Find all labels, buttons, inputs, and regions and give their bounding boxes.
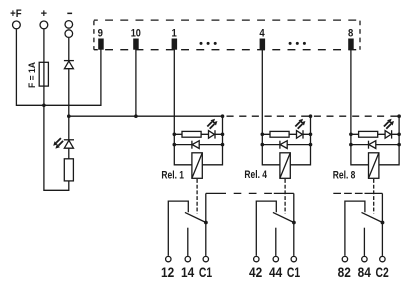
ellipsis dots left <box>200 42 203 45</box>
svg-text:4: 4 <box>259 27 265 39</box>
wire C1 bus dashed (blk1 to blk4) <box>206 192 294 194</box>
svg-text:C1: C1 <box>199 265 212 280</box>
svg-text:12: 12 <box>161 265 175 280</box>
wire − rail to LED <box>68 116 70 140</box>
node left LED branch <box>173 133 177 137</box>
node fuse/+F rail junction <box>42 104 46 108</box>
svg-text:44: 44 <box>269 265 283 280</box>
wire C bus dashed (blk4 to blk8) <box>333 192 382 194</box>
terminal + <box>40 21 48 29</box>
terminal box (dashed) <box>94 19 360 21</box>
node terminal 10 junction <box>134 114 138 118</box>
LED1 arrows <box>53 138 61 146</box>
svg-text:Rel. 1: Rel. 1 <box>161 170 184 182</box>
wire terminal 10 down <box>135 49 137 116</box>
node arm pivot <box>204 221 208 225</box>
svg-text:+: + <box>41 8 47 20</box>
wire +F down, rail to terminal 9 <box>16 29 101 105</box>
svg-text:10: 10 <box>131 27 141 39</box>
node − rail start <box>67 114 71 118</box>
node left diode branch <box>173 143 177 147</box>
node right diode branch <box>221 143 225 147</box>
resistor R (series LED) <box>182 131 201 137</box>
wire − rail dashed (blk1 to blk4) <box>227 115 311 117</box>
wire − down <box>68 38 70 61</box>
svg-text:14: 14 <box>181 265 195 280</box>
terminal 1 pin <box>172 39 178 50</box>
node right LED branch <box>221 133 225 137</box>
svg-text:8: 8 <box>348 27 353 39</box>
resistor R1 <box>64 159 73 181</box>
svg-text:C2: C2 <box>376 265 389 280</box>
wire LED to resistor <box>68 148 70 159</box>
fuse F1 <box>39 62 48 86</box>
LED (points right) <box>209 131 215 139</box>
terminal 14 <box>185 256 190 261</box>
diode (points left) <box>191 141 193 149</box>
wire LED branch <box>174 133 222 135</box>
wire + through fuse <box>43 29 45 105</box>
LED arrows <box>207 119 215 127</box>
svg-text:9: 9 <box>98 27 103 39</box>
wire − rail dashed (blk4 to blk8) <box>314 115 399 117</box>
wire resistor bottom loop to + rail <box>44 105 69 190</box>
LED1 (cathode up) <box>64 139 74 141</box>
terminal C <box>203 256 208 261</box>
ellipsis dots right <box>289 42 292 45</box>
svg-text:82: 82 <box>338 265 352 280</box>
svg-text:Rel. 8: Rel. 8 <box>333 169 356 181</box>
actuator dashed link <box>196 179 198 214</box>
node rail/right column <box>221 114 225 118</box>
diode D1 (cathode up) <box>64 60 74 62</box>
terminal 10 pin <box>133 39 139 50</box>
svg-text:+F: +F <box>10 8 22 20</box>
terminal 4 pin <box>260 39 266 50</box>
svg-text:1: 1 <box>172 27 177 39</box>
wire input column (from pin) <box>174 49 192 165</box>
wire right column (− rail) <box>202 116 222 165</box>
svg-text:84: 84 <box>358 265 372 280</box>
svg-text:42: 42 <box>249 265 263 280</box>
terminal +F <box>13 21 21 29</box>
terminal 8 pin <box>348 39 354 50</box>
wire freewheel diode branch <box>174 144 222 146</box>
wire common C <box>205 193 207 256</box>
label − <box>67 13 72 15</box>
svg-text:Rel. 4: Rel. 4 <box>244 169 267 181</box>
svg-text:F = 1A: F = 1A <box>27 62 37 88</box>
wire − rail solid <box>69 115 223 117</box>
wire diode to − rail <box>68 69 70 117</box>
switch arm <box>185 212 206 222</box>
wire contact 14 <box>187 228 189 256</box>
terminal − (double) <box>65 21 73 29</box>
relay coil <box>192 153 202 179</box>
svg-text:C1: C1 <box>287 265 300 280</box>
terminal 9 pin <box>98 39 104 50</box>
wire contact 12 with NC stub <box>168 201 188 256</box>
terminal 12 <box>166 256 171 261</box>
